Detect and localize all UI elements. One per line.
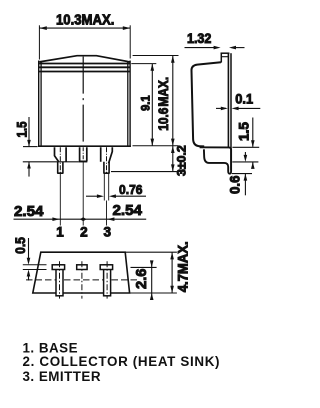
svg-text:2.54: 2.54: [14, 204, 44, 220]
svg-text:2. COLLECTOR (HEAT SINK): 2. COLLECTOR (HEAT SINK): [23, 354, 220, 369]
svg-text:3±0.2: 3±0.2: [174, 145, 188, 176]
svg-text:3: 3: [103, 225, 111, 240]
svg-text:2: 2: [80, 225, 88, 240]
svg-text:10.3MAX.: 10.3MAX.: [56, 12, 114, 28]
svg-text:9.1: 9.1: [138, 95, 152, 111]
svg-text:3. EMITTER: 3. EMITTER: [23, 369, 101, 384]
svg-text:0.76: 0.76: [119, 182, 143, 197]
svg-text:1.5: 1.5: [15, 121, 30, 137]
svg-text:10.6 MAX.: 10.6 MAX.: [156, 77, 171, 131]
svg-text:0.6: 0.6: [228, 175, 243, 194]
svg-text:2.54: 2.54: [113, 203, 143, 219]
svg-text:0.1: 0.1: [235, 92, 253, 107]
svg-text:1.32: 1.32: [187, 31, 211, 46]
svg-text:2.6: 2.6: [134, 269, 150, 290]
svg-text:0.5: 0.5: [13, 237, 28, 254]
svg-text:4.7MAX.: 4.7MAX.: [176, 241, 191, 292]
svg-text:1: 1: [56, 225, 64, 240]
svg-text:1.5: 1.5: [237, 122, 252, 141]
